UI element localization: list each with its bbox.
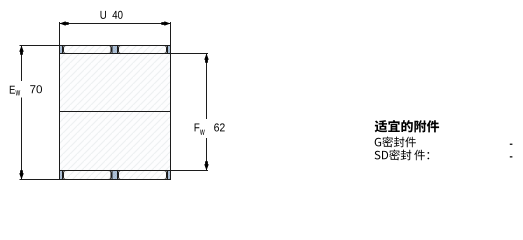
U dim arrow left bbox=[60, 21, 69, 26]
value dash for SD seals row bbox=[510, 156, 513, 157]
needle roller 1 (bottom row) bbox=[64, 171, 112, 180]
Ew dim arrow top bbox=[19, 46, 24, 55]
value dash for G seals row bbox=[510, 144, 513, 145]
top row lower boundary bbox=[60, 53, 171, 55]
bearing right edge / U extension line bbox=[170, 22, 172, 180]
Ew dimension line lower segment bbox=[21, 98, 23, 180]
Fw dimension line lower segment bbox=[206, 138, 208, 171]
needle roller 2 (top row) bbox=[119, 46, 167, 54]
Fw dim arrow top bbox=[204, 54, 209, 63]
label Fw 62 bbox=[195, 124, 200, 132]
label U 40 bbox=[101, 11, 107, 19]
label Ew 70 bbox=[10, 86, 15, 94]
needle roller 2 (bottom row) bbox=[119, 171, 167, 180]
bearing top outline bbox=[60, 45, 171, 47]
bottom row upper boundary bbox=[60, 170, 171, 172]
row label: G密封件 (G seals) bbox=[375, 137, 416, 148]
needle roller 1 (top row) bbox=[64, 46, 112, 54]
cage bar left (bottom row) bbox=[60, 171, 63, 180]
Ew top extension line bbox=[20, 45, 60, 47]
cage bar middle (top row) bbox=[112, 46, 118, 54]
cage body (hatched section) bbox=[60, 54, 171, 171]
Ew bottom extension line bbox=[20, 179, 60, 181]
bearing bottom outline bbox=[60, 179, 171, 181]
cage mid rib line bbox=[60, 111, 171, 113]
row label: SD密封件： (SD seals) bbox=[375, 150, 430, 161]
Ew dimension line upper segment bbox=[21, 46, 23, 82]
Fw dim arrow bottom bbox=[204, 161, 209, 170]
cage bar right (top row) bbox=[168, 46, 171, 54]
Fw dimension line upper segment bbox=[206, 54, 208, 120]
Fw top extension line bbox=[171, 53, 209, 55]
Fw bottom extension line bbox=[171, 170, 209, 172]
Ew dim arrow bottom bbox=[19, 170, 24, 179]
cage bar middle (bottom row) bbox=[112, 171, 118, 180]
cage bar right (bottom row) bbox=[168, 171, 171, 180]
needle roller and cage assembly cross-section drawing bbox=[0, 0, 523, 190]
heading: 适宜的附件 (suitable accessories) bbox=[375, 120, 439, 132]
U dimension line bbox=[60, 23, 171, 25]
U dim arrow right bbox=[161, 21, 170, 26]
bearing left edge / U extension line bbox=[59, 22, 61, 180]
cage bar left (top row) bbox=[60, 46, 63, 54]
